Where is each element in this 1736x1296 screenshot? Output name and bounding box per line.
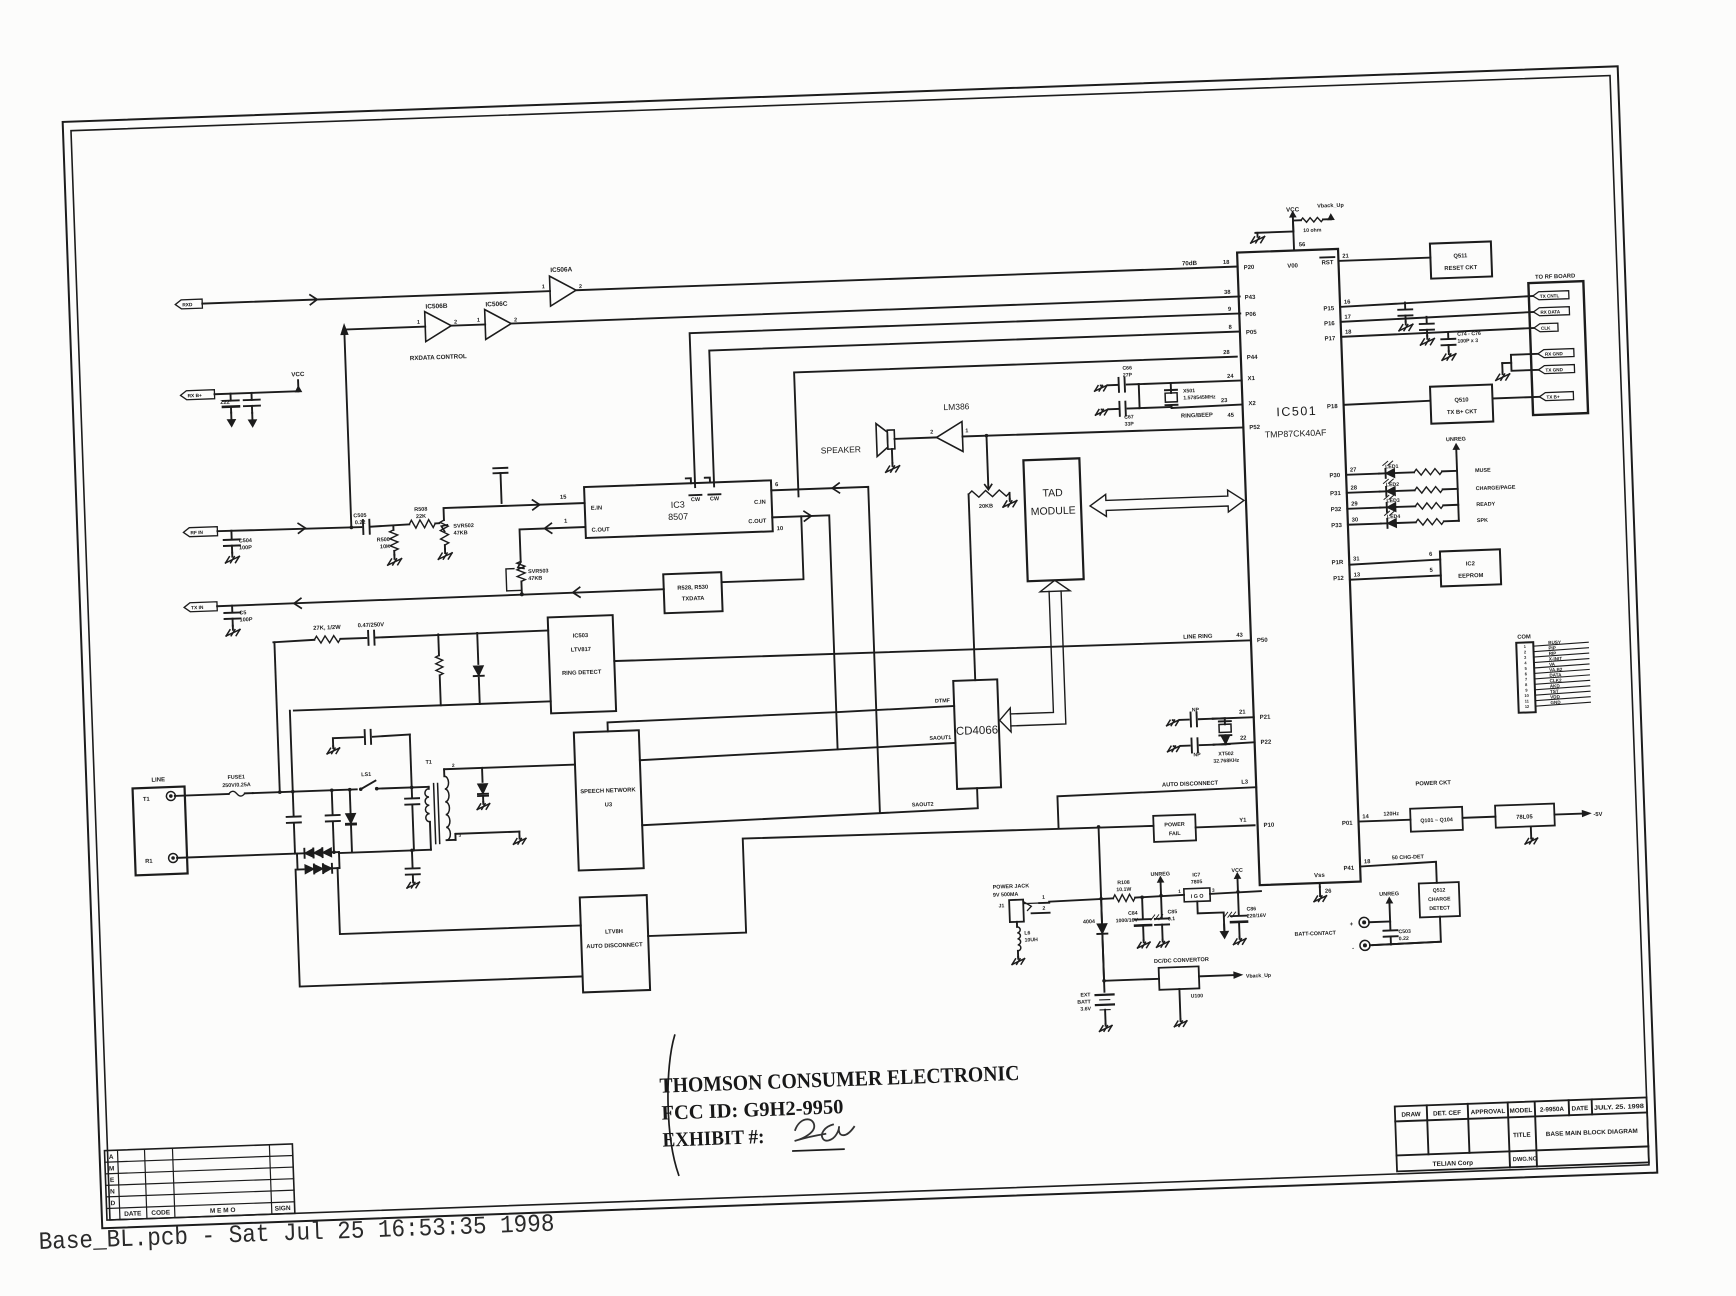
- wire bridge right down to LTV8H: [338, 859, 581, 934]
- svg-text:TX B+: TX B+: [1546, 394, 1560, 399]
- wire vertical x288 (to IC503 lower): [290, 711, 293, 792]
- svg-text:47KB: 47KB: [454, 530, 468, 537]
- svg-text:1: 1: [1042, 895, 1045, 901]
- svg-text:COM: COM: [1517, 634, 1531, 640]
- svg-text:AKD: AKD: [1550, 683, 1561, 688]
- svg-text:22: 22: [1240, 736, 1247, 742]
- TAD MODULE block: [1023, 458, 1083, 581]
- pin number 43 (P50): [1236, 633, 1243, 639]
- svg-text:27P: 27P: [1123, 372, 1133, 378]
- svg-text:V00: V00: [1287, 263, 1299, 269]
- svg-text:NP: NP: [1192, 707, 1200, 713]
- svg-text:10UH: 10UH: [1024, 937, 1038, 943]
- arrowhead into C.IN: [832, 483, 839, 493]
- label RXDATA CONTROL: [410, 353, 467, 362]
- wire AUTO DISCONNECT: [1057, 787, 1257, 827]
- wire rail R108 to IC7: [1135, 895, 1184, 898]
- svg-text:UNREG: UNREG: [1150, 871, 1170, 878]
- ground left of C66: [1094, 385, 1107, 391]
- pin number 45 (P52): [1227, 413, 1234, 419]
- svg-text:RING/BEEP: RING/BEEP: [1181, 413, 1213, 420]
- svg-text:P01: P01: [1342, 821, 1354, 827]
- svg-text:50 CHG-DET: 50 CHG-DET: [1392, 854, 1425, 861]
- svg-text:100P: 100P: [239, 545, 252, 551]
- svg-text:1000/16V: 1000/16V: [1116, 918, 1139, 925]
- svg-text:20KB: 20KB: [979, 503, 993, 510]
- svg-text:R500: R500: [377, 537, 390, 543]
- label C503 0.22: [1398, 929, 1411, 942]
- wire crystal caps join: [1139, 383, 1172, 408]
- wire P21: [1213, 717, 1254, 718]
- svg-text:P52: P52: [1249, 425, 1261, 431]
- svg-text:I G O: I G O: [1191, 894, 1204, 900]
- wire fuse to LS1: [253, 789, 357, 793]
- junction SVR503 to TX wire: [520, 592, 524, 596]
- op-amp IC506A: [541, 266, 582, 306]
- svg-text:0.1: 0.1: [1168, 916, 1176, 922]
- svg-text:D: D: [110, 1200, 115, 1207]
- svg-text:SIGN: SIGN: [275, 1205, 291, 1213]
- svg-text:A: A: [109, 1154, 114, 1161]
- label SAOUT1: [929, 735, 951, 742]
- ground below C75: [1420, 336, 1434, 345]
- svg-text:APPROVAL: APPROVAL: [1471, 1108, 1506, 1116]
- capacitor C67 33P: [1108, 401, 1139, 416]
- capacitor on x288 between rails: [286, 791, 302, 853]
- arrowhead on C.OUT(1) wire: [544, 523, 551, 533]
- wire P12 to IC2: [1350, 575, 1441, 579]
- label 70dB: [1182, 260, 1198, 268]
- op-amp IC3 8507 block: [584, 480, 773, 538]
- svg-text:14: 14: [1362, 814, 1369, 820]
- svg-text:TELIAN Corp: TELIAN Corp: [1432, 1160, 1473, 1168]
- label NP lower: [1193, 752, 1201, 758]
- diode bridge top row: [304, 848, 339, 858]
- svg-text:P44: P44: [1247, 355, 1259, 361]
- VCC arrow on rail: [1231, 868, 1243, 892]
- regulator IC7 7805: [1178, 872, 1216, 902]
- svg-text:N: N: [110, 1188, 115, 1195]
- wire T1 to fuse: [175, 794, 229, 796]
- svg-text:C505: C505: [353, 513, 366, 519]
- svg-text:LS1: LS1: [361, 772, 371, 778]
- block Q511 RESET CKT: [1430, 241, 1492, 278]
- label C74 - C76 100P x 3: [1457, 331, 1481, 345]
- wire Q512 down to batt minus: [1372, 917, 1441, 945]
- ground below Vss: [1314, 887, 1327, 902]
- ground below C76: [1442, 351, 1456, 360]
- svg-text:L3: L3: [1241, 779, 1249, 785]
- wire Vss ground: [1319, 883, 1321, 887]
- wire rail to DC/DC: [1104, 979, 1159, 981]
- svg-text:TX IN: TX IN: [191, 605, 204, 611]
- wire to 78L05: [1462, 817, 1495, 818]
- amendment table: [104, 1144, 294, 1220]
- svg-text:C86: C86: [1246, 906, 1256, 912]
- svg-text:C504: C504: [239, 538, 253, 545]
- microcontroller IC501 TMP87CK40AF: [1237, 249, 1361, 885]
- svg-text:P17: P17: [1324, 336, 1336, 342]
- block Q510 TX B+ CKT: [1430, 385, 1493, 424]
- junction rail 4004: [1099, 897, 1103, 901]
- svg-text:9V 500MA: 9V 500MA: [993, 892, 1019, 899]
- block 78L05: [1495, 804, 1555, 828]
- connector tag TX CNTL: [1533, 291, 1569, 300]
- block Q512 CHARGE DETECT: [1419, 882, 1460, 917]
- ground below R500: [387, 555, 401, 565]
- pin number 15 (E.IN): [560, 495, 567, 501]
- svg-text:27: 27: [1350, 467, 1357, 473]
- pin number Y1: [1239, 818, 1247, 824]
- label RING/BEEP: [1181, 413, 1213, 420]
- label SPEAKER: [821, 444, 861, 455]
- capacitor C503 0.22: [1383, 921, 1398, 944]
- svg-text:POWER: POWER: [1164, 822, 1185, 829]
- speaker symbol: [876, 423, 895, 457]
- wire R1 row: [177, 853, 303, 858]
- wire batt plus to UNREG: [1369, 920, 1390, 923]
- wire LINE RING (IC503 to P50): [616, 638, 1251, 663]
- svg-text:X1: X1: [1248, 376, 1256, 382]
- wire IC506B to IC506C: [451, 324, 485, 325]
- DC/DC ground: [1173, 989, 1187, 1027]
- svg-text:POWER CKT: POWER CKT: [1415, 780, 1451, 787]
- label NP upper: [1192, 707, 1200, 713]
- arrowhead on C.OUT(10): [804, 511, 811, 521]
- svg-text:31: 31: [1353, 556, 1360, 562]
- svg-text:TITLE: TITLE: [1513, 1132, 1531, 1140]
- svg-text:FAIL: FAIL: [1169, 831, 1182, 837]
- svg-text:IC2: IC2: [1466, 561, 1475, 567]
- svg-text:P33: P33: [1331, 523, 1343, 529]
- svg-text:RX DATA: RX DATA: [1540, 309, 1561, 315]
- bus arrow CD4066 to TAD: [995, 580, 1075, 733]
- UNREG rail for LEDs: [1446, 436, 1469, 521]
- ground below C74: [1399, 321, 1413, 330]
- UNREG arrow at batt: [1379, 891, 1400, 922]
- svg-text:8507: 8507: [668, 511, 688, 522]
- label C85 0.1: [1168, 909, 1178, 922]
- speaker ground wire: [891, 449, 894, 463]
- svg-text:P43: P43: [1245, 295, 1257, 301]
- power jack J1: [998, 899, 1040, 922]
- ground below EXT BATT: [1099, 1024, 1112, 1032]
- svg-text:C84: C84: [1128, 911, 1138, 917]
- ground below C5: [226, 625, 240, 635]
- ground below C86: [1233, 937, 1246, 945]
- battery EXT BATT 3.6V: [1095, 980, 1115, 1024]
- inductor L6 10UH: [1017, 922, 1021, 957]
- svg-text:SVR502: SVR502: [453, 523, 474, 530]
- junction C84: [1140, 895, 1144, 899]
- ground at cap top loop: [327, 746, 340, 754]
- pin number 6 (C.IN): [775, 482, 779, 488]
- svg-text:18: 18: [1345, 329, 1352, 335]
- svg-text:LED1: LED1: [1385, 464, 1399, 470]
- wire DTMF: [607, 706, 954, 731]
- svg-text:XT502: XT502: [1218, 751, 1234, 758]
- cap top loop to transformer: [333, 728, 412, 790]
- wire IC501 P05 to IC3 CW2: [709, 331, 1245, 486]
- ground below 78L05: [1525, 827, 1538, 844]
- svg-text:10 ohm: 10 ohm: [1303, 228, 1322, 235]
- arrowhead on TX wire 2: [573, 587, 580, 597]
- LED3 row (READY): [1347, 491, 1496, 513]
- label BATT-CONTACT: [1294, 930, 1336, 938]
- IC501 left pin names: [1244, 265, 1276, 829]
- ground under primary cap: [407, 880, 420, 888]
- ground hatch near VCC: [1250, 233, 1264, 243]
- LED4 row (SPK): [1347, 508, 1488, 530]
- filename stamp text: [38, 1210, 555, 1257]
- junction power fail rail: [1097, 825, 1101, 829]
- transformer T1 primary coil: [425, 789, 431, 850]
- svg-text:C503: C503: [1398, 929, 1411, 935]
- wire P18 to Q510: [1344, 401, 1431, 405]
- svg-text:J1: J1: [998, 903, 1004, 909]
- ground left of NP upper: [1166, 720, 1179, 726]
- IC3 labels: [591, 497, 767, 534]
- capacitor 0.47/250V: [368, 631, 374, 645]
- svg-text:RF IN: RF IN: [190, 530, 203, 536]
- fuse FUSE1: [229, 791, 253, 797]
- label C505 0.22: [353, 513, 367, 526]
- connector tag RX GND: [1538, 349, 1574, 358]
- wire xt junctions: [1213, 718, 1226, 744]
- pin number 8 (P05): [1228, 325, 1232, 331]
- svg-text:Q511: Q511: [1453, 253, 1468, 260]
- IC501 top pin names: [1287, 257, 1335, 270]
- svg-text:RXD: RXD: [182, 302, 193, 308]
- svg-text:IC506C: IC506C: [485, 301, 508, 309]
- svg-text:LED4: LED4: [1387, 514, 1401, 520]
- pin number 26: [1325, 889, 1332, 895]
- svg-text:0.22: 0.22: [355, 520, 366, 526]
- wire P1R to IC2: [1349, 559, 1440, 564]
- wire IC506A to IC501 P20: [576, 267, 1238, 291]
- connector tag TX IN: [184, 602, 217, 612]
- junction at 20KB pot: [985, 434, 989, 438]
- svg-text:100P x 3: 100P x 3: [1457, 338, 1478, 345]
- svg-text:SAOUT1: SAOUT1: [929, 735, 951, 742]
- crystal X501: [1165, 383, 1178, 408]
- block Q101-Q104: [1410, 807, 1463, 832]
- svg-text:T1: T1: [143, 797, 151, 803]
- svg-text:10K: 10K: [380, 544, 390, 550]
- svg-text:RST: RST: [1321, 260, 1334, 266]
- capacitor C504 stub: [223, 530, 240, 553]
- svg-text:IC501: IC501: [1276, 404, 1317, 419]
- connector tag RX DATA: [1533, 307, 1569, 316]
- block IC503 LTV817 RING DETECT: [548, 615, 616, 713]
- wire 27K row to IC503: [273, 640, 314, 642]
- arrowhead on RXD wire: [310, 295, 317, 305]
- svg-text:0.47/250V: 0.47/250V: [358, 622, 385, 629]
- svg-text:Z22: Z22: [220, 400, 230, 406]
- capacitor C84 1000/16V: [1134, 897, 1152, 941]
- svg-text:VCC: VCC: [1231, 868, 1243, 874]
- svg-text:EXHIBIT #:: EXHIBIT #:: [662, 1126, 765, 1152]
- wire P16 to RX DATA tag: [1341, 312, 1534, 322]
- svg-text:17: 17: [1344, 315, 1351, 321]
- wire 78L05 out: [1554, 814, 1582, 815]
- ground below SVR502: [438, 549, 452, 559]
- wire pot left leg to CD4066 top: [969, 494, 976, 680]
- capacitor C85 0.1: [1154, 895, 1170, 939]
- wire C0.47 to IC503: [375, 630, 548, 637]
- pin number 22 (P22): [1240, 736, 1247, 742]
- label 10 ohm: [1303, 228, 1322, 235]
- capacitor under primary x404: [405, 850, 420, 880]
- svg-text:DET. CEF: DET. CEF: [1433, 1110, 1461, 1118]
- svg-text:RESET CKT: RESET CKT: [1444, 265, 1478, 272]
- capacitor NP lower: [1180, 738, 1213, 753]
- wire IC501 P06 to IC3 CW1: [690, 313, 1246, 487]
- svg-text:SVR503: SVR503: [528, 568, 549, 575]
- terminal T1: [143, 791, 176, 803]
- svg-text:RIP: RIP: [1549, 651, 1557, 656]
- svg-text:P31: P31: [1330, 491, 1342, 497]
- pin number 23: [1221, 398, 1228, 404]
- svg-text:Vback_Up: Vback_Up: [1246, 973, 1271, 980]
- IC501 right pin names: [1322, 306, 1355, 872]
- label TO RF BOARD: [1535, 273, 1575, 280]
- op-amp IC506C: [476, 300, 517, 339]
- title block table: [1395, 1097, 1649, 1171]
- svg-text:LINE: LINE: [151, 777, 165, 783]
- wire lower loop to LTV8H: [296, 859, 583, 986]
- svg-text:38: 38: [1224, 290, 1231, 296]
- svg-text:DWG.NO: DWG.NO: [1513, 1156, 1538, 1163]
- svg-text:CODE: CODE: [151, 1209, 171, 1217]
- ground left of C67: [1095, 409, 1108, 415]
- svg-text:P32: P32: [1331, 507, 1343, 513]
- zener at secondary: [477, 768, 488, 802]
- svg-text:MUSE: MUSE: [1475, 468, 1491, 475]
- block POWER FAIL: [1153, 814, 1196, 841]
- svg-text:T1: T1: [425, 760, 432, 766]
- svg-text:47KB: 47KB: [528, 576, 542, 583]
- label DC/DC CONVERTOR: [1154, 957, 1209, 965]
- svg-text:16: 16: [1344, 299, 1351, 305]
- pin number 28 (P44): [1223, 350, 1230, 356]
- label C504 100P: [239, 538, 254, 551]
- pin number 5 (IC2): [1429, 568, 1433, 574]
- svg-text:45: 45: [1227, 413, 1234, 419]
- label R508 22K: [414, 507, 428, 520]
- svg-text:DTMF: DTMF: [935, 698, 951, 705]
- svg-text:18: 18: [1364, 859, 1371, 865]
- label R108 10.1W: [1116, 880, 1132, 894]
- svg-text:33P: 33P: [1124, 421, 1134, 427]
- wire 27K to C0.47: [340, 637, 366, 640]
- svg-text:7805: 7805: [1191, 879, 1203, 885]
- arrowhead into E.IN: [532, 500, 539, 510]
- block DC/DC convertor U100: [1159, 966, 1200, 989]
- svg-text:M E M O: M E M O: [210, 1207, 236, 1215]
- scan bracket mark: [666, 1035, 680, 1175]
- svg-text:C.OUT: C.OUT: [592, 527, 611, 534]
- wire IC7 out to VCC: [1210, 891, 1261, 894]
- label 27K 1/2W: [313, 625, 341, 632]
- connector tag RF IN: [183, 527, 217, 537]
- svg-text:IC7: IC7: [1192, 872, 1200, 878]
- label 120Hz: [1383, 811, 1399, 818]
- connector tag TX B+: [1539, 392, 1573, 401]
- wire P01 to power ckt: [1359, 820, 1411, 822]
- IC3 CW pin 2 (overline): [708, 494, 720, 502]
- wire to IC506B: [344, 327, 425, 330]
- svg-text:SAOUT2: SAOUT2: [912, 802, 934, 809]
- pin number 18: [1345, 329, 1352, 335]
- wire vertical to power rail: [1099, 827, 1105, 981]
- svg-text:IC506A: IC506A: [550, 266, 573, 274]
- label SVR503 47KB: [528, 568, 549, 582]
- svg-text:P12: P12: [1333, 576, 1345, 582]
- battery contact minus terminal: [1352, 940, 1370, 952]
- pin number L3: [1241, 779, 1249, 785]
- svg-text:P50: P50: [1257, 638, 1269, 644]
- wire down to 20KB pot: [986, 436, 988, 488]
- capacitor at VCC node: [243, 393, 260, 414]
- ground below secondary: [513, 836, 526, 844]
- wire VCC junction: [1255, 221, 1293, 233]
- ground arrow below cap: [248, 413, 256, 427]
- pin number 9 (P06): [1228, 307, 1232, 313]
- THOMSON CONSUMER ELECTRONIC text: [659, 1061, 1020, 1098]
- svg-text:E.IN: E.IN: [591, 505, 602, 511]
- svg-text:DETECT: DETECT: [1429, 905, 1451, 912]
- ground below L6: [1012, 957, 1025, 965]
- pin number 16: [1344, 299, 1351, 305]
- capacitor C66 27P: [1108, 377, 1139, 392]
- switch LS1: [358, 772, 378, 791]
- IC7 ground pin wire: [1197, 900, 1224, 933]
- svg-text:DRAW: DRAW: [1401, 1111, 1421, 1119]
- svg-text:18: 18: [1223, 260, 1230, 266]
- svg-text:EXT: EXT: [1080, 992, 1091, 998]
- LED1 row (MUSE): [1346, 458, 1491, 480]
- label C67 33P: [1124, 414, 1134, 427]
- svg-text:30: 30: [1352, 517, 1359, 523]
- svg-text:-: -: [1352, 946, 1354, 952]
- arrowhead -5V: [1582, 810, 1590, 816]
- ground below speaker: [885, 463, 899, 472]
- wire IC501 P44 down at x794: [794, 357, 1241, 497]
- potentiometer SVR503: [506, 561, 526, 595]
- wire VDD pin 56: [1293, 217, 1294, 251]
- svg-text:CLK: CLK: [1541, 326, 1551, 331]
- svg-text:Q512: Q512: [1433, 887, 1446, 893]
- svg-text:-5V: -5V: [1593, 812, 1602, 818]
- wire vertical x275 (to 27K): [274, 642, 279, 792]
- power ground arrow: [1220, 924, 1228, 938]
- wire IC503 right to LINE RING: [614, 660, 616, 662]
- exhibit underline: [793, 1149, 844, 1151]
- label T1 transformer: [425, 759, 461, 840]
- pin number 56: [1299, 242, 1306, 248]
- resistor R500 10K shunt: [389, 526, 398, 555]
- capacitor C75 on P16 wire: [1420, 317, 1435, 336]
- IC3 C.OUT(10) wire to SAOUT1: [772, 515, 837, 751]
- label C86 220/16V: [1246, 906, 1266, 920]
- wire C505 to R508: [370, 524, 409, 526]
- wires RX/TX GND common: [1502, 354, 1539, 372]
- svg-text:TST: TST: [1550, 689, 1559, 694]
- svg-text:READY: READY: [1476, 501, 1495, 508]
- op-amp IC506B: [416, 303, 457, 342]
- svg-text:X2: X2: [1248, 401, 1256, 407]
